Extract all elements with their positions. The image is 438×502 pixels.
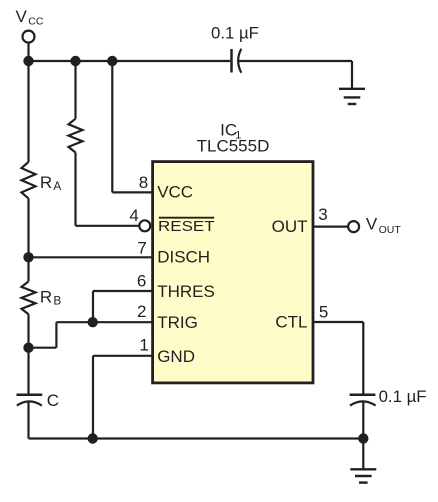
svg-text:VCC: VCC [157,183,193,202]
svg-text:0.1 µF: 0.1 µF [379,387,427,406]
svg-text:A: A [53,179,61,193]
svg-text:THRES: THRES [157,282,215,301]
svg-text:0.1 µF: 0.1 µF [211,23,259,42]
svg-text:3: 3 [318,205,327,224]
svg-text:OUT: OUT [379,224,402,236]
svg-text:7: 7 [137,238,146,257]
svg-text:V: V [16,7,28,26]
svg-text:TLC555D: TLC555D [197,137,270,156]
svg-text:1: 1 [139,336,148,355]
svg-text:R: R [40,173,52,192]
svg-text:B: B [53,294,61,308]
svg-text:5: 5 [319,303,328,322]
svg-text:4: 4 [129,206,138,225]
svg-text:CTL: CTL [275,312,307,331]
svg-text:8: 8 [139,173,148,192]
svg-text:OUT: OUT [272,217,308,236]
svg-text:V: V [366,214,378,233]
svg-text:GND: GND [157,347,195,366]
svg-text:6: 6 [137,272,146,291]
svg-text:C: C [47,391,59,410]
svg-text:RESET: RESET [158,219,215,235]
svg-text:TRIG: TRIG [157,313,198,332]
svg-text:DISCH: DISCH [157,247,210,266]
svg-text:R: R [40,287,52,306]
svg-text:2: 2 [137,302,146,321]
svg-text:CC: CC [28,16,44,28]
